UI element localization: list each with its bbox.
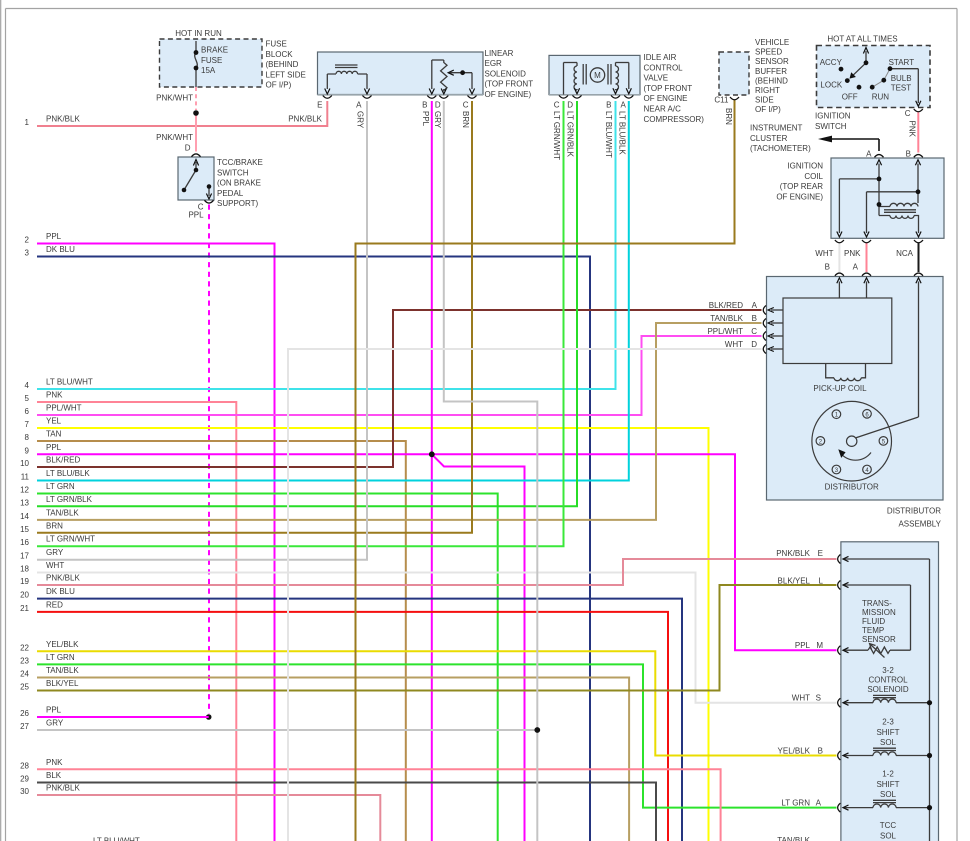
wire coil PNK stub	[866, 243, 868, 272]
svg-text:DISTRIBUTOR: DISTRIBUTOR	[887, 507, 941, 516]
transmission left arrows	[843, 556, 849, 810]
svg-text:CLUSTER: CLUSTER	[750, 134, 788, 143]
svg-text:PNK/BLK: PNK/BLK	[46, 574, 80, 583]
wire PNK/WHT fuse to TCC switch D	[195, 111, 197, 152]
svg-text:PNK: PNK	[908, 121, 917, 138]
svg-text:YEL: YEL	[46, 417, 62, 426]
instrument cluster arrow	[830, 139, 879, 151]
distributor left terminal lines	[771, 309, 783, 311]
wire row19 PNK/BLK to transmission E	[37, 559, 837, 585]
svg-text:PPL: PPL	[188, 211, 204, 220]
junction dot row9 PPL node	[429, 451, 435, 457]
svg-text:26: 26	[20, 709, 29, 718]
svg-text:15: 15	[20, 525, 29, 534]
svg-text:3: 3	[25, 249, 30, 258]
svg-text:OF I/P): OF I/P)	[266, 81, 292, 90]
svg-text:C: C	[905, 109, 911, 118]
wire PPL dashed TCC C to row26	[208, 205, 210, 714]
svg-text:START: START	[889, 58, 915, 67]
wire row8 TAN down off page	[37, 441, 406, 841]
idle air control valve box	[549, 55, 640, 94]
svg-text:PPL/WHT: PPL/WHT	[46, 404, 82, 413]
wire row14 TAN/BLK to distributor B	[37, 323, 762, 520]
junction dot row26 PPL	[206, 714, 212, 720]
wire coil NCA stub	[918, 243, 920, 272]
svg-text:DK BLU: DK BLU	[46, 587, 75, 596]
svg-text:TAN/BLK: TAN/BLK	[710, 314, 743, 323]
svg-text:NCA: NCA	[896, 249, 914, 258]
ignition switch box (dashed)	[817, 46, 931, 108]
svg-text:RED: RED	[46, 600, 63, 609]
svg-text:CONTROL: CONTROL	[868, 676, 908, 685]
svg-text:RIGHT: RIGHT	[755, 86, 780, 95]
svg-text:BRN: BRN	[461, 111, 470, 128]
svg-text:22: 22	[20, 643, 29, 652]
wire PNK/WHT fuse dashed segment	[195, 87, 197, 110]
svg-text:TCC: TCC	[880, 821, 897, 830]
svg-text:IDLE AIR: IDLE AIR	[644, 53, 677, 62]
svg-text:BUFFER: BUFFER	[755, 67, 787, 76]
svg-text:LT GRN/BLK: LT GRN/BLK	[46, 495, 93, 504]
wire row22 YEL/BLK to transmission B	[37, 651, 837, 755]
svg-text:(TOP FRONT: (TOP FRONT	[485, 80, 534, 89]
svg-text:(BEHIND: (BEHIND	[266, 60, 299, 69]
svg-text:D: D	[185, 144, 191, 153]
svg-text:PNK: PNK	[46, 758, 63, 767]
svg-text:24: 24	[20, 670, 29, 679]
svg-text:LEFT SIDE: LEFT SIDE	[266, 70, 306, 79]
wire row20 DK BLU down off page	[37, 599, 682, 841]
svg-text:23: 23	[20, 656, 29, 665]
svg-text:SHIFT: SHIFT	[876, 780, 899, 789]
temp sensor resistor	[871, 645, 885, 658]
svg-text:M: M	[816, 641, 823, 650]
svg-text:SENSOR: SENSOR	[755, 57, 789, 66]
svg-text:BLK/YEL: BLK/YEL	[46, 679, 79, 688]
svg-text:LT GRN/WHT: LT GRN/WHT	[552, 111, 561, 160]
svg-text:(BEHIND: (BEHIND	[755, 76, 788, 85]
svg-text:FUSE: FUSE	[266, 40, 287, 49]
svg-text:LT GRN: LT GRN	[46, 653, 75, 662]
wire distributor D WHT down off page	[288, 349, 762, 841]
svg-text:WHT: WHT	[46, 561, 64, 570]
svg-text:13: 13	[20, 498, 29, 507]
TCC switch D bump	[192, 154, 201, 157]
svg-text:SUPPORT): SUPPORT)	[217, 199, 259, 208]
svg-text:E: E	[818, 549, 823, 558]
svg-text:B: B	[818, 747, 823, 756]
svg-text:VALVE: VALVE	[644, 74, 669, 83]
svg-text:SOLENOID: SOLENOID	[485, 69, 527, 78]
svg-text:5: 5	[25, 394, 30, 403]
svg-text:C: C	[463, 101, 469, 110]
svg-text:IGNITION: IGNITION	[787, 162, 823, 171]
svg-text:SIDE: SIDE	[755, 96, 774, 105]
svg-text:GRY: GRY	[46, 548, 64, 557]
svg-text:PICK-UP COIL: PICK-UP COIL	[813, 384, 867, 393]
svg-text:18: 18	[20, 565, 29, 574]
svg-text:PPL/WHT: PPL/WHT	[707, 327, 743, 336]
svg-text:A: A	[356, 101, 362, 110]
TCC/brake switch internals	[184, 162, 209, 196]
coil top bumps A B	[875, 155, 884, 158]
svg-text:HOT AT ALL TIMES: HOT AT ALL TIMES	[827, 35, 897, 44]
transmission box	[841, 542, 939, 841]
svg-text:ASSEMBLY: ASSEMBLY	[898, 520, 941, 529]
svg-text:27: 27	[20, 722, 29, 731]
svg-text:D: D	[751, 340, 757, 349]
TCC switch C bump	[205, 200, 214, 203]
svg-text:7: 7	[25, 420, 30, 429]
svg-text:LT BLU/WHT: LT BLU/WHT	[46, 378, 93, 387]
ignition switch C bump	[914, 109, 923, 112]
wire row17 GRY to EGR A	[37, 101, 367, 560]
svg-text:14: 14	[20, 512, 29, 521]
svg-text:SPEED: SPEED	[755, 48, 782, 57]
wire EGR D GRY to row27 and off page	[444, 101, 538, 841]
distributor left bumps A B C D	[763, 306, 766, 354]
svg-text:6: 6	[25, 407, 30, 416]
svg-text:30: 30	[20, 787, 29, 796]
wire row28 PNK down off page	[37, 769, 721, 841]
svg-text:LT GRN: LT GRN	[781, 799, 810, 808]
wire row15 BRN to EGR C	[37, 101, 472, 533]
svg-text:EGR: EGR	[485, 59, 503, 68]
svg-text:TRANS-: TRANS-	[862, 599, 892, 608]
svg-text:SOL: SOL	[880, 831, 897, 840]
IACV internals: motor windings	[564, 63, 629, 95]
svg-text:CONTROL: CONTROL	[644, 63, 684, 72]
svg-text:LT GRN: LT GRN	[46, 482, 75, 491]
svg-text:YEL/BLK: YEL/BLK	[46, 640, 79, 649]
svg-text:28: 28	[20, 761, 29, 770]
svg-text:21: 21	[20, 604, 29, 613]
svg-text:PPL: PPL	[421, 111, 430, 127]
svg-text:LT BLU/WHT: LT BLU/WHT	[93, 837, 140, 841]
wire C11 BRN down and left off page	[356, 100, 735, 841]
svg-text:D: D	[567, 101, 573, 110]
wire EGR B PPL vertical off page	[431, 101, 433, 841]
svg-text:BRN: BRN	[724, 108, 733, 125]
C11 bump	[730, 97, 739, 100]
svg-text:B: B	[752, 314, 757, 323]
wire row9 PPL to transmission M	[37, 454, 837, 650]
wire row10 BLK/RED to distributor A	[37, 310, 762, 467]
svg-text:SHIFT: SHIFT	[876, 728, 899, 737]
svg-text:SOL: SOL	[880, 790, 897, 799]
svg-text:BRN: BRN	[46, 521, 63, 530]
svg-text:L: L	[819, 577, 824, 586]
svg-text:SWITCH: SWITCH	[815, 122, 847, 131]
fuse block box (dashed)	[160, 39, 263, 87]
svg-text:4: 4	[25, 381, 30, 390]
ignition coil box	[831, 158, 944, 238]
transmission left bumps E L M S B A	[838, 555, 841, 813]
svg-text:TAN/BLK: TAN/BLK	[46, 666, 79, 675]
svg-text:GRY: GRY	[356, 111, 365, 129]
svg-text:SWITCH: SWITCH	[217, 168, 249, 177]
svg-text:SENSOR: SENSOR	[862, 635, 896, 644]
wire row27 GRY to junction with EGR D wire	[37, 729, 537, 731]
svg-text:BLK/YEL: BLK/YEL	[778, 577, 811, 586]
svg-text:OF I/P): OF I/P)	[755, 105, 781, 114]
wire row16 LT GRN/WHT to IACV C	[37, 101, 564, 546]
svg-text:BLOCK: BLOCK	[266, 50, 294, 59]
svg-text:PNK/BLK: PNK/BLK	[46, 784, 80, 793]
svg-text:OF ENGINE: OF ENGINE	[644, 94, 688, 103]
svg-text:1-2: 1-2	[882, 770, 894, 779]
distributor rotor circle	[812, 401, 892, 481]
EGR solenoid internals: coil	[327, 60, 472, 91]
wire EGR A GRY stub	[366, 101, 368, 120]
2-3 shift solenoid coil	[844, 755, 873, 757]
svg-text:A: A	[752, 301, 758, 310]
svg-text:11: 11	[21, 473, 30, 482]
svg-text:IGNITION: IGNITION	[815, 112, 851, 121]
EGR terminal arrows E A B D C	[325, 89, 475, 95]
svg-text:B: B	[422, 101, 427, 110]
svg-text:DK BLU: DK BLU	[46, 245, 75, 254]
TCC/brake switch box	[178, 157, 214, 200]
svg-text:NEAR A/C: NEAR A/C	[644, 105, 682, 114]
svg-text:LT GRN/BLK: LT GRN/BLK	[566, 111, 575, 158]
wire row11 LT BLU/BLK to IACV A	[37, 101, 629, 481]
EGR terminal bumps	[323, 96, 477, 99]
svg-text:C11: C11	[714, 96, 729, 105]
svg-text:FLUID: FLUID	[862, 617, 885, 626]
pick-up coil block	[783, 298, 892, 364]
wire row5 PNK down off page	[37, 402, 236, 841]
svg-text:10: 10	[20, 459, 29, 468]
svg-text:BRAKE: BRAKE	[201, 46, 228, 55]
pick-up coil winding	[826, 364, 866, 381]
svg-text:A: A	[620, 101, 626, 110]
junction dot PNK/WHT node	[193, 110, 199, 116]
svg-text:1: 1	[25, 118, 30, 127]
svg-text:COMPRESSOR): COMPRESSOR)	[644, 115, 705, 124]
svg-text:SOLENOID: SOLENOID	[867, 685, 909, 694]
svg-text:LINEAR: LINEAR	[485, 49, 514, 58]
svg-text:2: 2	[25, 236, 30, 245]
svg-text:A: A	[853, 263, 859, 272]
svg-text:PPL: PPL	[46, 232, 62, 241]
svg-text:TAN: TAN	[46, 430, 62, 439]
svg-text:(ON BRAKE: (ON BRAKE	[217, 179, 261, 188]
svg-text:PNK: PNK	[844, 249, 861, 258]
IACV terminal arrows C D B A	[574, 88, 631, 94]
svg-text:INSTRUMENT: INSTRUMENT	[750, 124, 803, 133]
wire row24 TAN/BLK down off page	[37, 678, 629, 841]
svg-text:17: 17	[20, 552, 29, 561]
svg-text:GRY: GRY	[46, 719, 64, 728]
svg-text:DISTRIBUTOR: DISTRIBUTOR	[825, 483, 879, 492]
svg-text:BLK/RED: BLK/RED	[46, 456, 80, 465]
svg-text:(TOP REAR: (TOP REAR	[780, 182, 823, 191]
svg-text:E: E	[317, 101, 322, 110]
svg-text:PNK/BLK: PNK/BLK	[46, 115, 80, 124]
wire row12 LT GRN down off page	[37, 494, 498, 841]
svg-text:TAN/BLK: TAN/BLK	[777, 836, 810, 841]
svg-text:PNK: PNK	[46, 391, 63, 400]
svg-text:PPL: PPL	[46, 706, 62, 715]
svg-text:B: B	[606, 101, 611, 110]
svg-text:15A: 15A	[201, 66, 216, 75]
svg-text:12: 12	[20, 486, 29, 495]
wire row7 YEL down off page	[37, 428, 709, 841]
wire row18 WHT to transmission S	[37, 573, 837, 703]
svg-text:OF ENGINE): OF ENGINE)	[485, 90, 532, 99]
3-2 control solenoid coil	[844, 702, 873, 704]
svg-text:25: 25	[20, 683, 29, 692]
1-2 shift solenoid coil	[844, 807, 873, 809]
wire coil WHT stub	[838, 243, 840, 272]
svg-text:LT GRN/WHT: LT GRN/WHT	[46, 535, 95, 544]
wire ignition switch C PNK to coil B	[917, 112, 919, 152]
svg-text:LT BLU/BLK: LT BLU/BLK	[46, 469, 90, 478]
wire row3 DK BLU down off page	[37, 257, 590, 841]
svg-text:TCC/BRAKE: TCC/BRAKE	[217, 158, 263, 167]
svg-text:TAN/BLK: TAN/BLK	[46, 508, 79, 517]
svg-text:VEHICLE: VEHICLE	[755, 38, 789, 47]
wire row13 LT GRN/BLK to IACV D	[37, 101, 577, 506]
svg-text:(TOP FRONT: (TOP FRONT	[644, 84, 693, 93]
svg-text:PEDAL: PEDAL	[217, 189, 244, 198]
transmission inner vertical bus	[844, 559, 930, 841]
svg-text:(TACHOMETER): (TACHOMETER)	[750, 144, 811, 153]
ignition switch internals	[851, 51, 918, 103]
svg-text:HOT IN RUN: HOT IN RUN	[175, 29, 222, 38]
svg-text:ACCY: ACCY	[820, 58, 843, 67]
wire row1 PNK/BLK to EGR E	[37, 101, 327, 126]
svg-text:OF ENGINE): OF ENGINE)	[776, 192, 823, 201]
svg-text:PNK/BLK: PNK/BLK	[776, 549, 810, 558]
EGR solenoid internals: variable resistor	[431, 60, 433, 89]
svg-text:WHT: WHT	[792, 694, 810, 703]
wire row21 RED down off page	[37, 612, 668, 841]
svg-text:2-3: 2-3	[882, 718, 894, 727]
wire row23 LT GRN to transmission A	[37, 664, 837, 807]
svg-text:B: B	[906, 150, 911, 159]
svg-text:PNK/WHT: PNK/WHT	[156, 94, 193, 103]
wire row26 PPL to dashed junction	[37, 716, 209, 718]
svg-text:SOL: SOL	[880, 738, 897, 747]
rotor rotation arc arrow	[840, 453, 871, 461]
svg-text:PNK/BLK: PNK/BLK	[288, 115, 322, 124]
svg-text:M: M	[594, 71, 601, 80]
svg-text:YEL/BLK: YEL/BLK	[778, 747, 811, 756]
IACV motor circle M	[590, 68, 604, 82]
svg-text:8: 8	[25, 433, 30, 442]
svg-text:OFF: OFF	[842, 92, 858, 101]
svg-text:TEST: TEST	[891, 84, 912, 93]
trans fluid temp sensor loop	[844, 584, 911, 586]
svg-text:TEMP: TEMP	[862, 626, 884, 635]
svg-text:BLK/RED: BLK/RED	[709, 301, 743, 310]
svg-text:D: D	[435, 101, 441, 110]
brake fuse 15A symbol	[195, 41, 198, 87]
svg-text:16: 16	[20, 538, 29, 547]
IACV box bottom bevel edge	[549, 94, 640, 96]
EGR box bottom bevel edge	[318, 94, 484, 96]
svg-text:PPL: PPL	[46, 443, 62, 452]
svg-text:PNK/WHT: PNK/WHT	[156, 133, 193, 142]
wire row30 PNK/BLK down off page	[37, 795, 380, 841]
wire row9 PPL branch diagonal	[432, 454, 525, 841]
svg-text:19: 19	[20, 577, 29, 586]
distributor assembly box	[767, 277, 944, 501]
wire row25 BLK/YEL to transmission L	[37, 585, 837, 691]
distributor top bumps	[835, 273, 923, 276]
wire row2 PPL down off page	[37, 244, 275, 841]
svg-text:C: C	[554, 101, 560, 110]
svg-text:S: S	[816, 694, 821, 703]
svg-text:LT BLU/BLK: LT BLU/BLK	[617, 111, 626, 155]
coil transformer primary	[879, 203, 918, 206]
svg-text:3-2: 3-2	[882, 666, 894, 675]
wire row4 LT BLU/WHT to IACV B	[37, 101, 616, 389]
IACV terminal bumps	[559, 95, 633, 98]
svg-text:WHT: WHT	[725, 340, 743, 349]
svg-text:MISSION: MISSION	[862, 608, 896, 617]
svg-text:C: C	[751, 327, 757, 336]
svg-text:COIL: COIL	[804, 172, 823, 181]
svg-text:29: 29	[20, 775, 29, 784]
svg-text:LT BLU/WHT: LT BLU/WHT	[604, 111, 613, 158]
coil bottom bumps	[835, 240, 923, 243]
junction dot row27 GRY node	[534, 727, 540, 733]
linear EGR solenoid box	[318, 52, 484, 95]
svg-text:BULB: BULB	[891, 74, 912, 83]
C11 connector box (dashed)	[719, 52, 749, 95]
svg-text:A: A	[816, 799, 822, 808]
svg-text:WHT: WHT	[815, 249, 833, 258]
wire row29 BLK down off page	[37, 783, 656, 841]
svg-text:BLK: BLK	[46, 771, 62, 780]
svg-text:9: 9	[25, 446, 30, 455]
svg-text:PPL: PPL	[795, 641, 811, 650]
svg-text:RUN: RUN	[872, 92, 890, 101]
ignition coil internals	[839, 164, 918, 234]
wire row6 PPL/WHT to distributor C	[37, 336, 762, 415]
svg-text:LOCK: LOCK	[820, 81, 842, 90]
svg-text:B: B	[825, 263, 830, 272]
svg-text:A: A	[866, 150, 872, 159]
svg-text:FUSE: FUSE	[201, 56, 222, 65]
svg-text:GRY: GRY	[433, 111, 442, 129]
svg-text:20: 20	[20, 591, 29, 600]
coil transformer secondary	[879, 216, 914, 219]
